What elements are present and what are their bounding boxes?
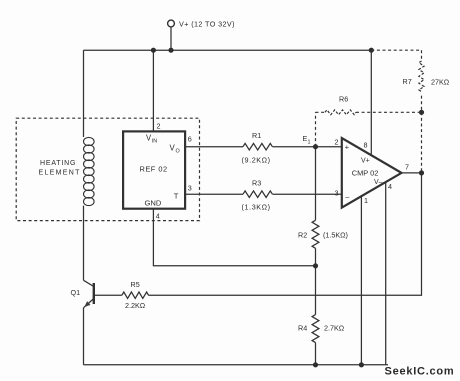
svg-text:R2: R2 [298,231,307,240]
svg-text:CMP 02: CMP 02 [352,169,379,178]
svg-text:R4: R4 [298,324,307,333]
svg-text:R5: R5 [131,280,140,289]
svg-text:GND: GND [145,199,162,208]
svg-text:6: 6 [188,135,192,144]
svg-text:8: 8 [364,141,368,150]
svg-text:+: + [345,143,349,152]
svg-text:3: 3 [188,184,192,193]
svg-text:V+: V+ [361,158,370,165]
svg-text:T: T [174,192,179,201]
svg-text:2: 2 [157,122,161,131]
svg-text:27KΩ: 27KΩ [431,78,450,87]
svg-text:3: 3 [335,189,339,198]
svg-text:V+ (12 TO 32V): V+ (12 TO 32V) [179,20,235,29]
svg-text:(9.2KΩ): (9.2KΩ) [242,156,271,165]
svg-text:R3: R3 [252,179,261,188]
svg-text:2.2KΩ: 2.2KΩ [125,301,146,310]
svg-text:ELEMENT: ELEMENT [39,170,81,177]
svg-text:7: 7 [405,163,409,172]
svg-text:–: – [345,193,349,202]
svg-text:Q1: Q1 [71,288,81,297]
svg-text:R7: R7 [403,77,412,86]
svg-text:HEATING: HEATING [40,160,76,167]
svg-text:4: 4 [388,182,392,191]
svg-text:V–: V– [374,179,383,186]
svg-text:R6: R6 [339,95,348,104]
svg-text:1: 1 [364,196,368,205]
svg-text:1: 1 [308,140,311,146]
svg-text:REF 02: REF 02 [140,165,168,174]
svg-text:SeekIC.com: SeekIC.com [385,366,455,378]
svg-text:2.7KΩ: 2.7KΩ [324,324,345,333]
svg-text:(1.5KΩ): (1.5KΩ) [323,231,348,240]
svg-text:4: 4 [156,212,160,221]
svg-text:R1: R1 [252,131,261,140]
svg-text:(1.3KΩ): (1.3KΩ) [242,203,271,212]
svg-text:O: O [176,149,180,155]
svg-text:2: 2 [335,138,339,147]
svg-text:IN: IN [152,139,157,145]
